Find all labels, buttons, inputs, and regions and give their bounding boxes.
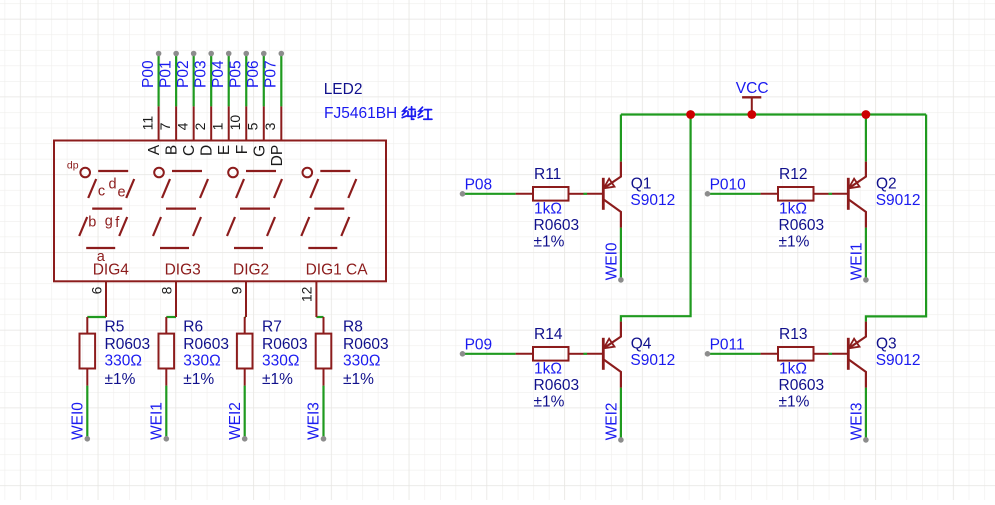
- svg-text:R14: R14: [534, 326, 563, 343]
- svg-text:P08: P08: [465, 176, 493, 193]
- svg-text:10: 10: [227, 115, 243, 131]
- svg-text:S9012: S9012: [876, 192, 921, 209]
- svg-text:R0603: R0603: [183, 336, 229, 353]
- svg-text:DIG3: DIG3: [165, 262, 201, 279]
- svg-text:P05: P05: [227, 60, 244, 88]
- svg-text:S9012: S9012: [876, 352, 921, 369]
- svg-text:E: E: [216, 145, 233, 155]
- svg-text:g: g: [105, 214, 113, 230]
- svg-text:P04: P04: [210, 60, 227, 88]
- svg-text:WEI2: WEI2: [604, 402, 621, 440]
- svg-text:DP: DP: [269, 145, 286, 167]
- svg-text:330Ω: 330Ω: [105, 352, 142, 369]
- svg-text:±1%: ±1%: [105, 371, 136, 388]
- svg-text:±1%: ±1%: [262, 371, 293, 388]
- svg-text:R13: R13: [779, 326, 807, 343]
- svg-text:9: 9: [228, 286, 244, 294]
- svg-text:G: G: [251, 145, 268, 157]
- svg-text:8: 8: [158, 286, 174, 294]
- svg-text:P02: P02: [175, 60, 192, 88]
- svg-text:C: C: [181, 145, 198, 156]
- svg-text:WEI3: WEI3: [849, 402, 866, 440]
- svg-text:WEI2: WEI2: [227, 402, 244, 440]
- svg-text:S9012: S9012: [630, 352, 675, 369]
- svg-text:WEI1: WEI1: [849, 242, 866, 280]
- svg-text:R12: R12: [779, 166, 807, 183]
- svg-text:FJ5461BH: FJ5461BH: [324, 105, 397, 122]
- svg-text:DIG4: DIG4: [93, 262, 130, 279]
- svg-text:R0603: R0603: [262, 336, 308, 353]
- svg-text:3: 3: [262, 122, 278, 130]
- svg-text:F: F: [234, 145, 251, 154]
- svg-text:6: 6: [88, 286, 104, 294]
- svg-text:P06: P06: [245, 60, 262, 88]
- svg-text:P01: P01: [157, 60, 174, 88]
- svg-text:±1%: ±1%: [343, 371, 374, 388]
- svg-text:P00: P00: [140, 60, 157, 88]
- svg-text:7: 7: [157, 122, 173, 130]
- svg-text:Q1: Q1: [631, 176, 652, 193]
- svg-text:S9012: S9012: [630, 192, 675, 209]
- svg-text:Q4: Q4: [631, 336, 652, 353]
- svg-text:12: 12: [299, 286, 315, 302]
- svg-text:P011: P011: [710, 336, 745, 353]
- svg-text:±1%: ±1%: [779, 394, 810, 411]
- svg-text:WEI0: WEI0: [604, 242, 621, 280]
- svg-text:R7: R7: [262, 319, 282, 336]
- svg-text:±1%: ±1%: [534, 394, 565, 411]
- svg-text:DIG1: DIG1: [306, 262, 342, 279]
- svg-text:R8: R8: [343, 319, 363, 336]
- svg-text:R0603: R0603: [779, 377, 825, 394]
- svg-text:Q3: Q3: [876, 336, 897, 353]
- svg-text:e: e: [118, 185, 126, 201]
- svg-text:WEI1: WEI1: [149, 402, 166, 440]
- svg-text:R0603: R0603: [534, 217, 580, 234]
- svg-text:d: d: [109, 177, 117, 193]
- svg-text:R0603: R0603: [105, 336, 151, 353]
- svg-text:R0603: R0603: [343, 336, 389, 353]
- svg-text:CA: CA: [346, 262, 368, 279]
- svg-text:R0603: R0603: [779, 217, 825, 234]
- svg-text:Q2: Q2: [876, 176, 897, 193]
- svg-text:P03: P03: [192, 60, 209, 88]
- svg-text:LED2: LED2: [324, 81, 363, 98]
- svg-text:dp: dp: [67, 160, 79, 172]
- svg-text:4: 4: [174, 122, 190, 130]
- svg-text:1kΩ: 1kΩ: [534, 201, 562, 218]
- svg-text:330Ω: 330Ω: [343, 352, 380, 369]
- svg-text:R6: R6: [183, 319, 203, 336]
- svg-text:DIG2: DIG2: [233, 262, 269, 279]
- svg-text:330Ω: 330Ω: [183, 352, 220, 369]
- svg-text:b: b: [88, 215, 96, 231]
- svg-text:1kΩ: 1kΩ: [779, 201, 807, 218]
- svg-text:P010: P010: [710, 176, 747, 193]
- svg-text:R11: R11: [534, 166, 561, 183]
- svg-text:c: c: [98, 184, 105, 200]
- svg-text:1: 1: [209, 122, 225, 130]
- svg-text:WEI3: WEI3: [306, 402, 323, 440]
- svg-text:VCC: VCC: [736, 80, 769, 97]
- svg-text:330Ω: 330Ω: [262, 352, 299, 369]
- svg-text:±1%: ±1%: [183, 371, 214, 388]
- svg-text:R5: R5: [105, 319, 125, 336]
- svg-text:R0603: R0603: [534, 377, 580, 394]
- svg-text:1kΩ: 1kΩ: [779, 361, 807, 378]
- svg-text:1kΩ: 1kΩ: [534, 361, 562, 378]
- svg-text:±1%: ±1%: [779, 234, 810, 251]
- svg-text:B: B: [164, 145, 181, 155]
- svg-text:A: A: [146, 144, 163, 155]
- svg-text:2: 2: [192, 122, 208, 130]
- svg-text:D: D: [199, 145, 216, 156]
- svg-text:5: 5: [244, 122, 260, 130]
- svg-text:P09: P09: [465, 336, 493, 353]
- svg-text:11: 11: [139, 116, 155, 131]
- svg-text:P07: P07: [263, 60, 280, 88]
- svg-text:±1%: ±1%: [534, 234, 565, 251]
- svg-text:WEI0: WEI0: [70, 402, 87, 440]
